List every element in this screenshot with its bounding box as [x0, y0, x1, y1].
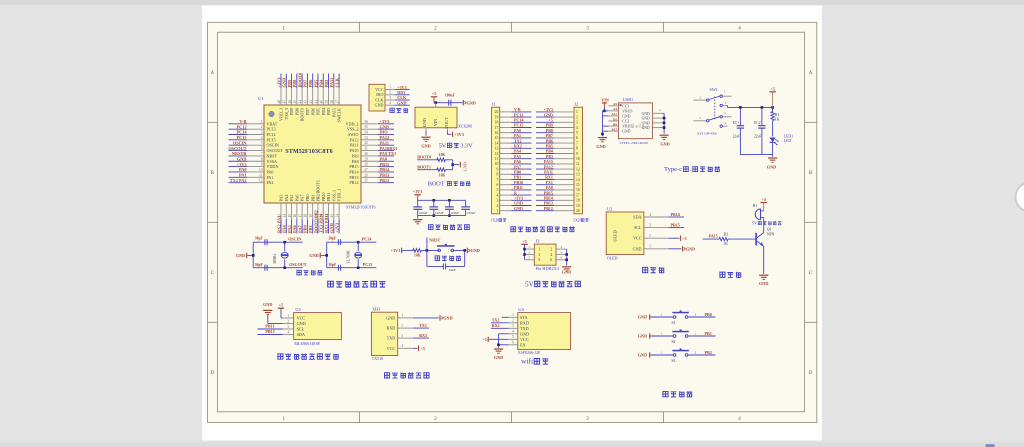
svg-text:1X20: 1X20: [573, 218, 582, 222]
svg-text:PA15: PA15: [329, 77, 334, 88]
svg-text:6: 6: [550, 257, 552, 262]
svg-text:GND: GND: [422, 118, 427, 127]
svg-text:PB3: PB3: [324, 79, 329, 88]
svg-text:16: 16: [576, 188, 580, 192]
svg-text:GND: GND: [494, 355, 503, 360]
svg-text:U4: U4: [518, 307, 524, 312]
connector J1 1X20 header body: [492, 107, 500, 214]
capacitor 30pF top (crystal): [327, 241, 359, 243]
svg-text:15: 15: [495, 136, 499, 140]
svg-text:PB0: PB0: [305, 194, 310, 201]
svg-text:J2: J2: [574, 101, 578, 106]
wire net PA1 (J1): [511, 137, 531, 139]
svg-text:VDD_2: VDD_2: [346, 121, 359, 126]
svg-text:OSCIN: OSCIN: [233, 140, 248, 145]
wire button to GND node: [454, 249, 467, 251]
svg-text:40: 40: [320, 100, 324, 104]
svg-text:GND: GND: [622, 130, 630, 134]
svg-text:14: 14: [576, 178, 580, 182]
switch SW1 pole B throw 6: [720, 125, 722, 127]
wire net PA6 (U1 bottom): [296, 220, 298, 234]
svg-text:PA5: PA5: [289, 195, 294, 202]
svg-text:PA15: PA15: [709, 234, 718, 239]
svg-text:PB4: PB4: [319, 79, 324, 88]
svg-text:VIN: VIN: [601, 97, 609, 102]
svg-text:18: 18: [304, 214, 308, 218]
svg-text:PC13: PC13: [267, 127, 276, 132]
wire net PB14 (OLED SDA): [668, 216, 684, 218]
svg-text:VIN: VIN: [433, 119, 438, 126]
svg-text:GND: GND: [686, 246, 695, 251]
svg-text:RX3 PB11: RX3 PB11: [324, 214, 329, 233]
svg-text:9: 9: [496, 167, 498, 171]
svg-text:3: 3: [261, 131, 263, 135]
svg-text:12: 12: [576, 167, 580, 171]
svg-text:1X20: 1X20: [491, 218, 500, 222]
svg-text:3: 3: [389, 96, 391, 100]
switch SW1 gang dashed link: [714, 97, 716, 120]
svg-text:29: 29: [364, 157, 368, 161]
mcu U1 right pin 35 VSS_2: [361, 128, 378, 130]
svg-text:43: 43: [304, 100, 308, 104]
wire net PB0 (button S1): [688, 316, 716, 318]
svg-text:3: 3: [512, 324, 514, 328]
wire net +3V3 (U1 bottom): [338, 220, 340, 234]
wire net NRSTR (U1 left): [229, 155, 248, 157]
title independent buttons: [663, 391, 668, 396]
wire net PB1 (button S2): [688, 335, 716, 337]
svg-text:45: 45: [293, 100, 297, 104]
mcu U1 bottom pin 17 PA7: [301, 203, 303, 220]
svg-text:10: 10: [495, 162, 499, 166]
svg-text:TXD: TXD: [520, 326, 529, 331]
svg-text:VSS_1: VSS_1: [331, 190, 336, 202]
svg-text:3: 3: [496, 199, 498, 203]
wire GND to button S3: [650, 354, 673, 356]
wire net DIO (U1 right): [378, 134, 394, 136]
wire VIN/GND bus (USB1 left): [603, 107, 605, 111]
wire reset loop right: [446, 265, 465, 267]
svg-text:10K: 10K: [439, 173, 446, 177]
svg-text:2: 2: [576, 115, 578, 119]
mcu U1 bottom pin 20 PB2/BOOT1: [317, 203, 319, 220]
mcu U1 bottom pin 13 PA3: [280, 203, 282, 220]
svg-text:PB8: PB8: [292, 79, 297, 88]
power GND port (XH1): [439, 315, 441, 320]
mcu U1 left pin 2 PC13: [247, 128, 264, 130]
svg-text:NPN: NPN: [767, 233, 775, 237]
svg-text:GND: GND: [236, 253, 245, 258]
svg-text:16: 16: [495, 131, 499, 135]
svg-text:2: 2: [401, 324, 403, 328]
svg-text:PC14: PC14: [236, 130, 247, 135]
wire net RX2 PA3 (U1 bottom): [280, 220, 282, 234]
svg-text:1: 1: [538, 247, 540, 252]
wire net TX1 (J2): [536, 184, 554, 186]
wire net PC15 (U1 left): [229, 139, 248, 141]
capacitor 30pF top (crystal): [253, 241, 285, 243]
wire net PB7 (U1 top): [306, 74, 308, 89]
svg-text:SCL: SCL: [297, 327, 305, 332]
svg-text:PB5: PB5: [316, 108, 321, 115]
svg-text:6: 6: [576, 136, 578, 140]
svg-text:PB7: PB7: [305, 108, 310, 115]
wire net PA7 (J1): [511, 168, 531, 170]
title display: [643, 267, 648, 272]
svg-text:15: 15: [288, 214, 292, 218]
filter caps top bus wire: [418, 199, 466, 201]
svg-text:2: 2: [695, 312, 697, 316]
svg-text:14: 14: [283, 214, 287, 218]
svg-text:OSCOUT: OSCOUT: [228, 146, 246, 151]
svg-text:XH1: XH1: [372, 307, 380, 312]
svg-text:PB13: PB13: [380, 173, 390, 178]
capacitor EC1 22uF: [739, 107, 741, 125]
svg-text:GND: GND: [642, 121, 650, 125]
svg-text:PB12: PB12: [544, 206, 553, 211]
svg-text:Pin HDR2X3: Pin HDR2X3: [536, 266, 559, 271]
ground symbol (J3): [562, 266, 571, 268]
svg-text:1: 1: [528, 245, 530, 249]
svg-text:TX2: TX2: [492, 318, 500, 323]
svg-text:10nF: 10nF: [449, 268, 456, 272]
mcu U1 top pin 48 VDD_3: [280, 88, 282, 105]
mcu U1 left pin 5 OSCIN: [247, 144, 264, 146]
svg-text:TX2 PA2: TX2 PA2: [230, 178, 247, 183]
svg-text:3: 3: [287, 325, 289, 329]
wire net PA12 (J2): [536, 168, 554, 170]
button S3: [673, 354, 676, 357]
switch SW1 pole B: [694, 120, 707, 122]
svg-text:22uF: 22uF: [733, 135, 740, 139]
mcu U1 right pin 33 PA12: [361, 139, 378, 141]
svg-text:100nF: 100nF: [451, 211, 460, 215]
mcu U1 left pin 6 OSCOUT: [247, 150, 264, 152]
mcu U1 right pin 31 PA10: [361, 150, 378, 152]
wire net CLK (P1): [395, 99, 410, 101]
wire net PC13 (J1): [511, 116, 531, 118]
svg-text:GND: GND: [520, 331, 529, 336]
wire net PB6 (U1 top): [312, 74, 314, 89]
svg-text:8: 8: [496, 173, 498, 177]
svg-text:+5: +5: [279, 303, 283, 308]
svg-text:GND: GND: [397, 100, 406, 105]
svg-text:48: 48: [277, 100, 281, 104]
svg-text:PA5: PA5: [287, 224, 292, 233]
wire net V-B (U1 left): [229, 123, 248, 125]
svg-text:PB0: PB0: [303, 224, 308, 233]
mcu U1 left pin 9 VDDA: [247, 166, 264, 168]
svg-text:34: 34: [364, 131, 368, 135]
svg-text:+5: +5: [420, 346, 424, 351]
svg-text:PA0: PA0: [239, 167, 247, 172]
wire net RX1 (J2): [536, 179, 554, 181]
wire GND to button S2: [650, 335, 673, 337]
filter caps bottom bus wire: [418, 215, 466, 217]
net label PC14: [358, 241, 376, 243]
svg-text:A5: A5: [613, 102, 617, 106]
svg-text:PB4: PB4: [321, 108, 326, 115]
svg-text:+3V3: +3V3: [413, 189, 423, 194]
svg-text:28: 28: [364, 163, 368, 167]
svg-text:4: 4: [401, 344, 403, 348]
mcu U1 top pin 44 BOOT0: [301, 88, 303, 105]
wire net PB5 (U1 top): [317, 74, 319, 89]
svg-text:32.768K: 32.768K: [347, 250, 351, 263]
wire GND bus (J3 right): [566, 249, 568, 266]
svg-text:19: 19: [495, 115, 499, 119]
sensor U3 MLX90614 body: [294, 313, 342, 340]
wire to NRST node: [421, 249, 439, 251]
wire net GND (J2): [536, 116, 554, 118]
svg-text:VSS_2: VSS_2: [347, 127, 359, 132]
power +5 (XH1): [418, 346, 420, 351]
svg-text:3: 3: [401, 334, 403, 338]
svg-text:1K: 1K: [775, 118, 780, 122]
svg-text:15: 15: [576, 183, 580, 187]
svg-text:35: 35: [364, 125, 368, 129]
svg-text:PB15: PB15: [671, 223, 680, 228]
svg-text:20: 20: [576, 209, 580, 213]
svg-text:+3V3: +3V3: [276, 77, 281, 88]
power +3V3 (regulator output): [452, 132, 454, 137]
svg-text:PB8: PB8: [294, 108, 299, 115]
frame inner border: [218, 32, 805, 412]
svg-text:RX1: RX1: [419, 333, 427, 338]
svg-text:RXD: RXD: [386, 326, 395, 331]
svg-text:ESP8266-12F: ESP8266-12F: [518, 351, 541, 355]
wire net PB10 (J1): [511, 184, 531, 186]
svg-text:18: 18: [576, 199, 580, 203]
svg-text:GND: GND: [638, 353, 647, 358]
svg-text:30pF: 30pF: [255, 236, 264, 240]
svg-text:36: 36: [364, 120, 368, 124]
mcu U1 top pin 41 PB5: [317, 88, 319, 105]
svg-text:GND: GND: [660, 141, 669, 146]
wire +3V3 to R5: [402, 249, 414, 251]
wire net +3V3 (U1 top): [280, 74, 282, 89]
svg-text:CC1: CC1: [622, 104, 629, 108]
svg-text:OSCOUT: OSCOUT: [289, 262, 307, 267]
svg-text:41: 41: [314, 100, 318, 104]
svg-text:BOOT0: BOOT0: [297, 72, 302, 88]
svg-text:5V: 5V: [525, 280, 534, 288]
mcu U1 top pin 39 PB3: [328, 88, 330, 105]
svg-text:B12: B12: [612, 127, 618, 131]
wire emitter to GND: [763, 246, 765, 274]
wire net RX3 PB11 (U1 bottom): [328, 220, 330, 234]
svg-text:GND: GND: [309, 253, 318, 258]
svg-text:PB13: PB13: [349, 175, 358, 180]
wire net PA9 TX1 (U1 right): [378, 155, 394, 157]
svg-text:PA0: PA0: [267, 169, 274, 174]
svg-text:27: 27: [364, 168, 368, 172]
mcu U1 right pin 29 PA8: [361, 160, 378, 162]
svg-text:PB3: PB3: [326, 108, 331, 115]
svg-text:RX2 PA3: RX2 PA3: [276, 215, 281, 233]
wire net RX2 (U4 TXD): [491, 327, 509, 329]
svg-text:6: 6: [261, 147, 263, 151]
wire net PA10RX1 (U1 right): [378, 150, 394, 152]
svg-text:PB2/BOOT1: PB2/BOOT1: [316, 180, 321, 201]
wire net PA5 (U1 bottom): [291, 220, 293, 234]
svg-text:PA10: PA10: [350, 148, 359, 153]
svg-text:5: 5: [576, 131, 578, 135]
module XH1 TX510 body: [371, 312, 397, 355]
svg-text:VDD_3: VDD_3: [279, 108, 284, 121]
svg-text:PA8: PA8: [352, 159, 359, 164]
ground symbol (buzzer): [759, 274, 768, 276]
svg-text:PB14: PB14: [671, 212, 680, 217]
svg-text:3.3V: 3.3V: [460, 142, 473, 149]
title MCU pin breakout headers: [511, 227, 516, 232]
svg-text:MLX90614ESF: MLX90614ESF: [294, 341, 321, 346]
svg-text:OSCIN: OSCIN: [288, 236, 301, 241]
svg-text:GND: GND: [443, 316, 452, 321]
wire net TX3 PB10 (U1 bottom): [322, 220, 324, 234]
svg-text:Q1: Q1: [767, 228, 772, 232]
capacitor C3 100nF (filter): [448, 199, 451, 202]
mcu U1 left pin 8 VSSA: [247, 160, 264, 162]
svg-text:46: 46: [288, 100, 292, 104]
svg-text:2: 2: [550, 247, 552, 252]
wire net PB12 (J2): [536, 210, 554, 212]
svg-text:U1: U1: [258, 96, 264, 101]
svg-text:PA4: PA4: [282, 224, 287, 233]
switch SW1 pole A: [694, 99, 707, 101]
wire net PA8 (J2): [536, 189, 554, 191]
net label OSCOUT: [285, 267, 303, 269]
svg-text:GND: GND: [375, 103, 384, 108]
wire net PB1 (U1 bottom): [312, 220, 314, 234]
svg-text:2: 2: [287, 319, 289, 323]
svg-text:31: 31: [364, 147, 368, 151]
svg-text:RXD: RXD: [520, 320, 529, 325]
wire net PA12 (U1 right): [378, 139, 394, 141]
svg-text:8MHz: 8MHz: [273, 253, 277, 263]
wire net PA4 (J1): [511, 153, 531, 155]
wire net PA8 (U1 right): [378, 160, 394, 162]
svg-text:+5: +5: [761, 197, 765, 202]
svg-text:USB1: USB1: [623, 97, 633, 102]
svg-text:OSCIN: OSCIN: [267, 143, 279, 148]
mcu U1 bottom pin 18 PB0: [306, 203, 308, 220]
svg-text:5: 5: [538, 257, 540, 262]
crystal branch vertical wire: [326, 242, 328, 268]
mcu U1 right pin 26 PB13: [361, 176, 378, 178]
mcu U1 left pin 1 VBAT: [247, 123, 264, 125]
svg-text:PB5: PB5: [313, 79, 318, 88]
wire net PC14 (J1): [511, 121, 531, 123]
svg-text:GND: GND: [421, 144, 430, 149]
capacitor 100nF (regulator input): [448, 100, 450, 106]
svg-text:VOUT: VOUT: [444, 117, 449, 129]
svg-text:4: 4: [576, 126, 578, 130]
wire net RX2 (J1): [511, 147, 531, 149]
wire net PB6 (J2): [536, 142, 554, 144]
svg-text:PB7: PB7: [303, 79, 308, 88]
svg-text:1K: 1K: [723, 242, 728, 246]
wire reset loop left: [426, 250, 428, 266]
svg-text:5: 5: [512, 335, 514, 339]
wire VIN node: [436, 102, 463, 104]
svg-text:VBUS: VBUS: [622, 125, 632, 129]
mcu U1 STM32F103C8T6 body: [264, 105, 361, 203]
svg-text:PB6: PB6: [310, 108, 315, 115]
ground symbol (regulator): [421, 136, 430, 138]
wire net GND (U1 bottom): [333, 220, 335, 234]
svg-text:PB15: PB15: [380, 162, 390, 167]
svg-text:D: D: [809, 371, 813, 376]
svg-text:PB2: PB2: [705, 350, 712, 355]
buzzer B1 body: [755, 209, 760, 220]
svg-text:+3V3: +3V3: [380, 119, 390, 124]
svg-text:BOOT1: BOOT1: [417, 165, 431, 170]
svg-text:GND: GND: [622, 114, 630, 118]
mcu U1 right pin 34 SWIO: [361, 134, 378, 136]
title chip filter caps: [428, 225, 433, 230]
wire net TX2 (U4 RXD): [491, 322, 509, 324]
svg-text:SWCLK: SWCLK: [337, 108, 342, 122]
svg-text:2: 2: [695, 350, 697, 354]
svg-text:+3V3: +3V3: [334, 222, 339, 233]
svg-text:14: 14: [495, 141, 499, 145]
svg-text:PA12: PA12: [380, 135, 390, 140]
svg-text:37: 37: [335, 100, 339, 104]
svg-text:PB6: PB6: [308, 79, 313, 88]
wire net PA4 (U1 bottom): [285, 220, 287, 234]
wire net PB0 (J1): [511, 173, 531, 175]
svg-text:PA2: PA2: [267, 180, 274, 185]
wire net PB13 (U1 right): [378, 176, 394, 178]
svg-text:44: 44: [298, 100, 302, 104]
mcu U1 left pin 4 PC15: [247, 139, 264, 141]
svg-text:B5: B5: [613, 117, 617, 121]
svg-text:+5: +5: [770, 86, 774, 91]
svg-text:6: 6: [496, 183, 498, 187]
svg-text:4: 4: [496, 193, 498, 197]
svg-text:VSSA: VSSA: [267, 159, 278, 164]
svg-text:17: 17: [576, 193, 580, 197]
svg-text:VDD_1: VDD_1: [337, 189, 342, 202]
wire net PC13 (U1 left): [229, 128, 248, 130]
svg-text:PA12: PA12: [350, 137, 359, 142]
mcu U1 right pin 32 PA11: [361, 144, 378, 146]
svg-text:4: 4: [649, 213, 651, 217]
resistor R1 1K: [772, 107, 774, 112]
svg-text:GND: GND: [642, 117, 650, 121]
svg-text:PA7: PA7: [300, 195, 305, 202]
svg-text:+3V3: +3V3: [237, 162, 247, 167]
wire stub (U4 pin1): [502, 316, 509, 318]
svg-text:PC15: PC15: [363, 262, 373, 267]
wire net +3V3 (J2): [536, 111, 554, 113]
mcu U1 left pin 3 PC14: [247, 134, 264, 136]
svg-text:TX3 PB10: TX3 PB10: [319, 213, 324, 233]
svg-text:100nF: 100nF: [467, 211, 476, 215]
svg-text:A: A: [809, 71, 813, 76]
canvas: [208, 22, 817, 422]
button S4 (reset): [438, 249, 441, 252]
svg-text:2: 2: [695, 331, 697, 335]
svg-text:TXD: TXD: [387, 336, 396, 341]
svg-text:1: 1: [389, 85, 391, 89]
svg-text:5V: 5V: [752, 221, 758, 226]
net label OSCIN: [285, 241, 303, 243]
buzzer pin wires: [760, 210, 764, 212]
title download port: [390, 108, 394, 112]
mcu U1 bottom pin 19 PB1: [312, 203, 314, 220]
